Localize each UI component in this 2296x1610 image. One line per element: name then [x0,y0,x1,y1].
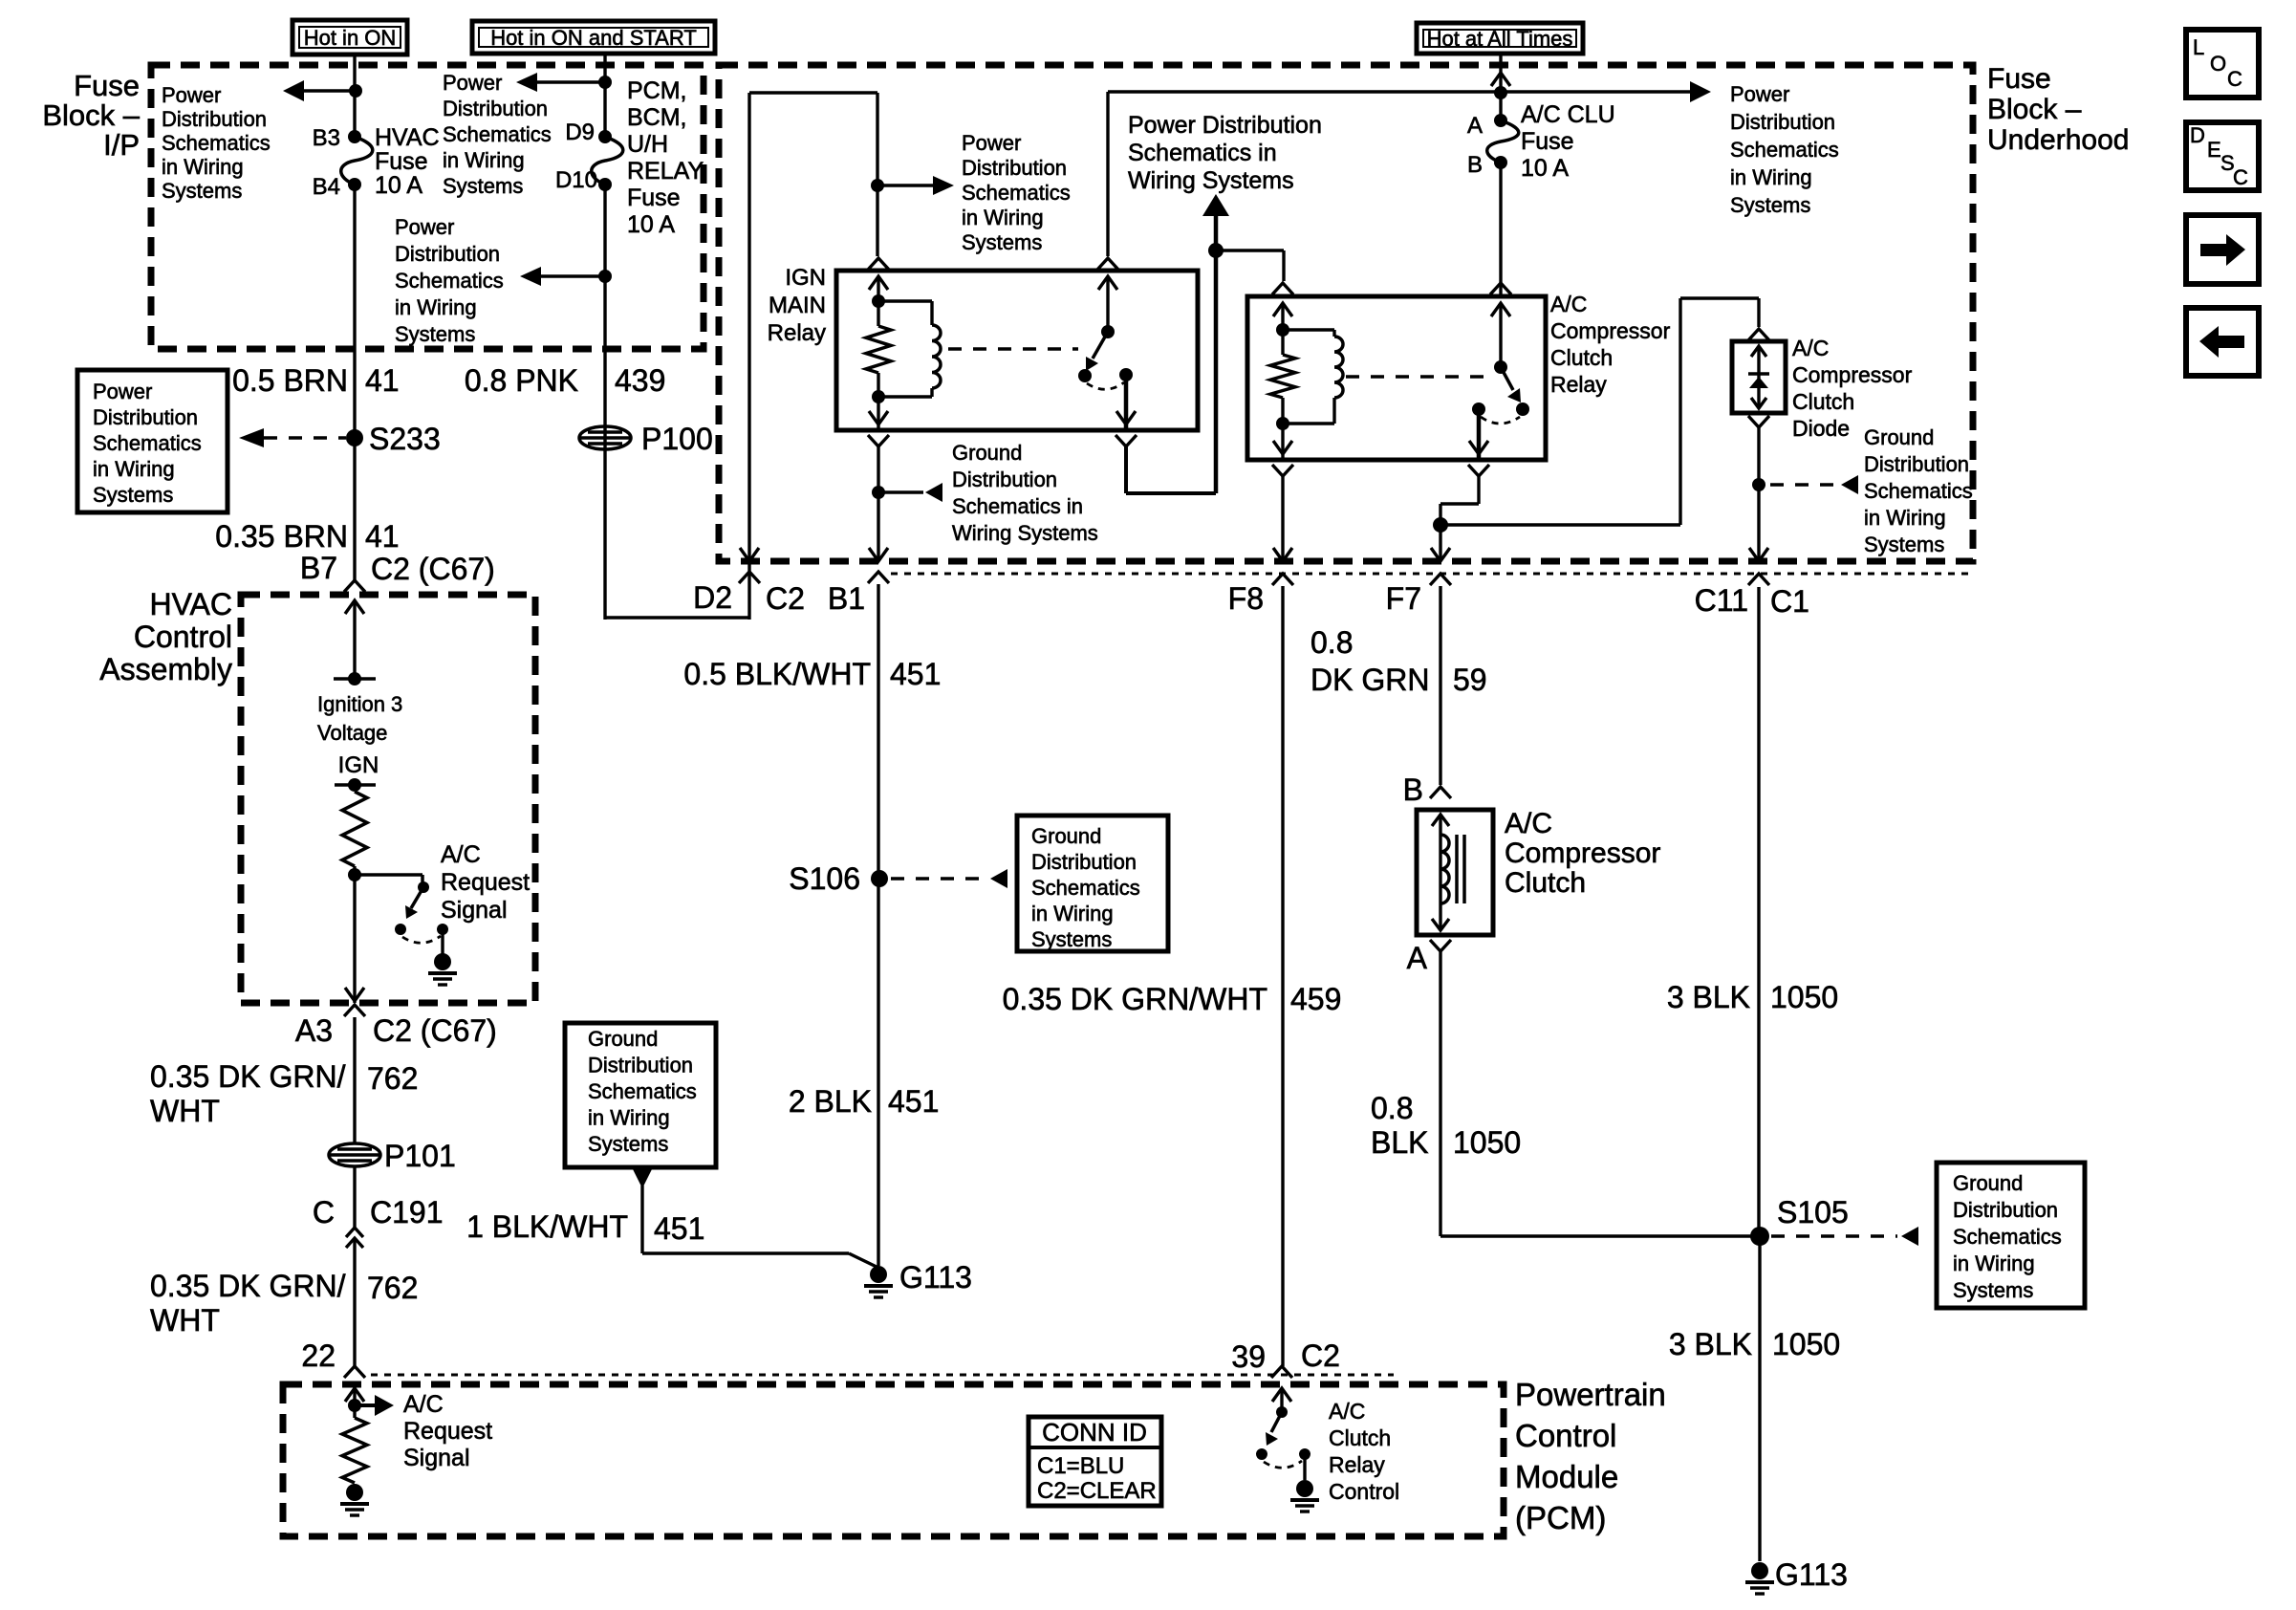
relay contact output arrow [1124,375,1129,430]
svg-text:A/C: A/C [1505,808,1552,839]
B1 wire from relay coil [877,446,879,561]
PCM switch arm [1271,1412,1282,1432]
F8 wire from A/C relay coil [1281,476,1284,561]
relay resistor [866,326,891,373]
ignition feed riser [1214,214,1219,493]
svg-text:Systems: Systems [162,179,242,203]
A/C relay contact output arrow [1477,409,1482,460]
wire 0.8 DK GRN 59 [1439,586,1441,785]
svg-text:Schematics in: Schematics in [1128,140,1277,166]
svg-text:451: 451 [888,1084,939,1119]
next arrow button [2186,215,2259,284]
connector F8 [1272,574,1293,585]
junction dot F7/diode [1433,517,1448,533]
wire fuse to A/C relay [1499,163,1502,294]
HVAC switch top contact dot [418,881,429,893]
PCM switch top dot [1276,1406,1288,1418]
connector C11 C1 [1748,574,1769,585]
svg-text:D: D [2190,123,2205,147]
svg-text:762: 762 [367,1061,418,1096]
svg-text:C2 (C67): C2 (C67) [371,552,495,586]
svg-text:O: O [2210,52,2226,76]
dashed reference arrow from S106 [891,877,986,881]
svg-text:MAIN: MAIN [769,293,826,318]
junction dot to reference 3 [598,270,612,283]
svg-text:451: 451 [654,1211,704,1246]
ignition 3 voltage terminal [334,677,376,681]
svg-text:Ground: Ground [588,1027,658,1051]
relay coil output chevron [868,435,889,446]
svg-text:in Wiring: in Wiring [962,206,1044,229]
HVAC switch left contact dot [395,924,406,935]
relay coil output arrow [877,397,879,430]
svg-text:Systems: Systems [395,322,475,346]
HVAC switch right contact dot [437,924,448,935]
A/C relay coil input arrow [1273,303,1292,316]
A/C relay coil input chevron [1272,283,1293,294]
svg-text:Powertrain: Powertrain [1515,1377,1666,1412]
CONN ID table box [1029,1417,1161,1506]
svg-text:Distribution: Distribution [1953,1198,2058,1222]
svg-text:Power Distribution: Power Distribution [1128,112,1322,139]
svg-text:459: 459 [1290,982,1341,1016]
svg-text:Relay: Relay [1550,372,1607,397]
svg-text:C: C [2227,67,2242,91]
fuse block I/P dashed outline [151,65,704,349]
svg-text:Control: Control [1329,1479,1399,1504]
wire Hot in ON and START to U/H relay fuse [603,54,606,137]
svg-text:Schematics: Schematics [962,181,1071,205]
svg-text:Control: Control [134,620,232,654]
svg-text:F8: F8 [1228,581,1264,616]
svg-text:0.5 BRN: 0.5 BRN [232,363,348,398]
exit arrow at F7 [1431,548,1450,561]
svg-text:Block –: Block – [1987,94,2082,125]
HVAC ignition 3 voltage input arrow [345,600,364,614]
diode internal arrow up [1751,346,1766,357]
A/C relay dashed actuation link [1346,375,1484,379]
svg-text:Hot in ON and START: Hot in ON and START [490,26,697,50]
A/C compressor clutch diode chevron top [1748,329,1769,340]
svg-text:Underhood: Underhood [1987,124,2129,156]
A/C relay coil top dot [1276,323,1289,337]
relay switch travel arc dashed [1087,382,1124,389]
relay switch pivot dot [1101,325,1115,338]
clutch coil arrow up [1432,815,1449,826]
PCM switch travel arc dashed [1264,1461,1302,1468]
svg-text:G113: G113 [1775,1557,1848,1592]
clutch coil arrow down [1432,919,1449,930]
junction dot at PCM feed [598,76,612,89]
connector A chevron clutch [1430,940,1451,951]
svg-text:Power: Power [962,131,1021,155]
connector 39 chevron [1271,1366,1292,1378]
ignition feed arrow up to reference [1202,194,1229,216]
relay switch arm [1093,332,1108,359]
svg-text:Schematics: Schematics [1953,1225,2062,1249]
svg-text:Schematics in: Schematics in [952,494,1083,518]
svg-text:1050: 1050 [1453,1125,1521,1160]
svg-text:F7: F7 [1386,581,1421,616]
svg-text:Distribution: Distribution [395,242,500,266]
arrow to power distribution reference 4 [877,184,944,187]
A/C relay switch travel arc dashed [1481,417,1520,424]
diode internal arrow down [1751,398,1766,408]
svg-text:Schematics: Schematics [162,131,271,155]
C191 connector chevrons [346,1228,363,1237]
svg-text:(PCM): (PCM) [1515,1500,1606,1535]
relay switch right contact dot [1119,368,1133,381]
svg-text:P100: P100 [641,422,713,456]
wire Hot at All Times down [1499,54,1502,120]
arrow to power distribution reference 3 [530,274,605,278]
svg-text:Systems: Systems [1953,1278,2033,1302]
svg-text:Distribution: Distribution [162,107,267,131]
A/C relay contact input arrow [1491,303,1510,316]
svg-text:WHT: WHT [150,1303,220,1338]
svg-text:A/C: A/C [403,1391,444,1418]
wire 3 BLK 1050 lower [1758,1236,1761,1561]
wire 0.35 DK GRN/WHT 762 lower [353,1238,356,1366]
coil bottom node dot [872,390,885,403]
svg-text:0.35 BRN: 0.35 BRN [215,519,348,554]
svg-text:L: L [2193,35,2204,59]
svg-text:Distribution: Distribution [1864,452,1969,476]
splice S233 [346,429,363,446]
PCM request ground [346,1484,363,1501]
wire to C191 [353,1166,356,1228]
svg-text:Request: Request [441,869,530,896]
arrow to ground distribution reference 1 [878,490,923,494]
svg-text:A: A [1467,113,1483,139]
DESC button [2186,122,2259,190]
A/C relay switch right contact dot [1516,402,1529,416]
arrow down from reference box [632,1167,653,1188]
svg-text:Compressor: Compressor [1505,838,1660,869]
A/C relay coil output chevron [1272,465,1293,476]
A/C relay switch pivot dot [1494,360,1507,374]
A/C compressor clutch diode box [1732,341,1786,413]
svg-text:Distribution: Distribution [1730,110,1835,134]
connector 22 chevron [344,1366,365,1378]
svg-text:0.8: 0.8 [1371,1091,1413,1125]
A/C CLU fuse A-B 10A [1494,114,1507,127]
svg-text:C2 (C67): C2 (C67) [373,1013,497,1048]
svg-text:Assembly: Assembly [99,652,232,686]
Hot in ON title box [292,20,407,54]
svg-text:A: A [1407,941,1428,975]
svg-text:Request: Request [403,1418,492,1445]
connector B7 C2(C67) [344,580,365,592]
svg-text:in Wiring: in Wiring [1730,165,1812,189]
svg-text:Hot at All Times: Hot at All Times [1427,27,1573,51]
A/C relay resistor [1270,355,1295,398]
svg-text:Distribution: Distribution [952,468,1057,491]
svg-text:1 BLK/WHT: 1 BLK/WHT [466,1209,628,1244]
svg-text:in Wiring: in Wiring [162,155,244,179]
svg-text:A/C: A/C [1792,336,1829,360]
svg-text:Fuse: Fuse [1987,63,2051,95]
svg-text:1050: 1050 [1772,1327,1840,1361]
junction dot coil feed reference [871,179,884,192]
svg-text:B7: B7 [300,551,337,585]
svg-text:Schematics: Schematics [588,1079,697,1103]
PCM dashed outline [283,1384,1504,1536]
exit arrow at B1 [869,548,888,561]
svg-text:Diode: Diode [1792,416,1850,441]
wire relay output jog to F7 [1477,476,1480,504]
svg-text:WHT: WHT [150,1094,220,1128]
svg-text:Schematics: Schematics [93,431,202,455]
svg-text:I/P: I/P [103,128,140,162]
wire 0.5 BRN 41 fuse to S233 [353,185,356,580]
svg-text:Signal: Signal [441,897,508,924]
svg-text:in Wiring: in Wiring [395,295,477,319]
HVAC fuse B3-B4 10A [348,130,361,143]
wire 0.35 DK GRN/WHT 459 [1281,586,1284,1366]
svg-text:B3: B3 [313,125,340,151]
svg-text:Distribution: Distribution [1031,850,1137,874]
svg-text:Power: Power [395,215,454,239]
svg-text:Schematics: Schematics [1031,876,1140,900]
svg-text:D9: D9 [565,120,595,145]
Hot at All Times title box [1417,23,1583,54]
LOC button [2186,30,2259,98]
PCM clutch relay control input arrow [1272,1388,1291,1402]
HVAC switch travel arc dashed [402,936,441,943]
wire 0.8 BLK 1050 [1439,951,1441,1236]
svg-text:Systems: Systems [1031,927,1112,951]
PCM request junction dot [348,1399,361,1412]
connector B chevron clutch [1430,787,1451,798]
svg-text:Power: Power [1730,82,1789,106]
svg-text:CONN ID: CONN ID [1042,1418,1147,1447]
svg-text:B: B [1403,772,1423,807]
HVAC switch ground [441,929,444,954]
svg-text:C: C [313,1195,335,1229]
svg-text:0.8 PNK: 0.8 PNK [465,363,578,398]
relay output jog to riser [1124,446,1128,493]
junction dot diode reference [1752,478,1765,491]
svg-text:B: B [1467,152,1483,178]
ground G113 bottom [1751,1562,1768,1579]
svg-text:HVAC: HVAC [375,124,440,151]
previous arrow button [2186,308,2259,376]
reference box ground distribution S105 [1937,1163,2085,1308]
junction dot hot at all times [1494,86,1507,99]
relay coil [878,299,932,302]
diode ground wire [1757,427,1760,561]
svg-text:Systems: Systems [1730,193,1810,217]
svg-text:S105: S105 [1777,1195,1849,1229]
svg-text:C2: C2 [1301,1338,1340,1373]
clutch coil [1440,835,1449,903]
wire 0.35 DK GRN/WHT 762 upper [353,1017,356,1143]
svg-text:439: 439 [615,363,665,398]
svg-text:Block –: Block – [42,98,140,132]
A/C relay contact output chevron [1468,465,1489,476]
wire 0.5 BLK/WHT 451 [877,584,879,1266]
IGN MAIN relay box [836,271,1198,430]
svg-text:S233: S233 [369,422,441,456]
dashed reference arrow from diode [1770,483,1837,487]
svg-text:1050: 1050 [1770,980,1838,1014]
fuse block Underhood dashed outline [719,65,1973,561]
relay contact feed riser [1106,92,1109,256]
dashed reference arrow from S233 [264,436,346,440]
svg-text:451: 451 [890,657,941,691]
HVAC switch arm [411,887,423,908]
svg-text:C1=BLU: C1=BLU [1037,1453,1124,1479]
svg-text:A/C CLU: A/C CLU [1521,101,1615,128]
reference box power distribution schematics [77,370,227,512]
svg-text:B1: B1 [828,581,865,616]
svg-text:10 A: 10 A [1521,155,1569,182]
wire D2 riser [747,93,750,620]
svg-text:Systems: Systems [962,230,1042,254]
svg-text:C1: C1 [1770,584,1809,619]
svg-text:Fuse: Fuse [627,185,681,211]
svg-text:BCM,: BCM, [627,104,687,131]
svg-text:3 BLK: 3 BLK [1667,980,1750,1014]
relay contact input arrow [1098,276,1117,290]
svg-text:Ground: Ground [1953,1171,2023,1195]
svg-text:Module: Module [1515,1459,1618,1494]
PCM switch right contact dot [1299,1448,1310,1460]
svg-text:Signal: Signal [403,1445,470,1471]
svg-text:Power: Power [443,71,502,95]
svg-text:C: C [2233,165,2248,189]
svg-text:P101: P101 [384,1139,456,1173]
svg-text:0.35 DK GRN/WHT: 0.35 DK GRN/WHT [1003,982,1267,1016]
A/C relay coil output arrow [1281,424,1284,460]
relay switch left contact dot [1078,369,1092,382]
svg-text:G113: G113 [899,1260,972,1295]
A/C compressor clutch box [1417,810,1493,935]
HVAC switch feed [355,873,422,877]
svg-text:in Wiring: in Wiring [443,148,525,172]
PCM A/C request input arrow [345,1388,364,1402]
wire 1 BLK/WHT 451 to G113 [640,1186,643,1253]
svg-text:A/C: A/C [1550,292,1587,316]
svg-text:Clutch: Clutch [1505,867,1586,899]
splice S106 [871,870,888,887]
svg-text:3 BLK: 3 BLK [1669,1327,1752,1361]
splice S105 [1750,1227,1769,1246]
svg-text:Clutch: Clutch [1329,1425,1391,1450]
svg-text:Systems: Systems [443,174,523,198]
svg-text:Systems: Systems [588,1132,668,1156]
HVAC resistor [342,792,367,866]
connector A3 C2(C67) [344,1005,365,1016]
svg-text:Relay: Relay [1329,1452,1385,1477]
junction dot ground distribution reference [872,486,885,499]
svg-text:Control: Control [1515,1418,1616,1453]
A/C relay switch left contact dot [1472,402,1485,416]
relay contact output chevron [1116,435,1137,446]
svg-text:C2=CLEAR: C2=CLEAR [1037,1478,1157,1504]
wire to A/C relay coil [1216,249,1284,251]
svg-text:Fuse: Fuse [1521,128,1574,155]
svg-text:U/H: U/H [627,131,668,158]
PCM request resistor [342,1418,367,1483]
svg-text:Clutch: Clutch [1792,389,1854,414]
svg-text:HVAC: HVAC [149,587,232,621]
svg-text:Schematics: Schematics [1730,138,1839,162]
grommet P101 [329,1143,380,1166]
svg-text:22: 22 [301,1338,336,1373]
connector F7 [1430,574,1451,585]
svg-text:in Wiring: in Wiring [1953,1251,2035,1275]
grommet P100 [579,426,631,449]
svg-text:41: 41 [365,363,400,398]
relay contact input chevron [1097,258,1118,270]
svg-text:10 A: 10 A [627,211,675,238]
reference box ground distribution middle [565,1023,716,1167]
svg-text:RELAY: RELAY [627,158,704,185]
svg-text:C2: C2 [766,581,805,616]
junction dot ignition feed [1208,243,1224,258]
svg-text:in Wiring: in Wiring [93,457,175,481]
svg-text:Relay: Relay [768,320,826,346]
svg-text:A/C: A/C [1329,1399,1365,1424]
svg-text:Ignition 3: Ignition 3 [317,692,402,716]
svg-text:C191: C191 [370,1195,444,1229]
ground G113 mid [870,1266,887,1283]
HVAC control assembly dashed outline [241,595,535,1003]
svg-text:Fuse: Fuse [74,69,140,102]
diode symbol [1748,372,1769,376]
connector D2 C2 [739,572,760,583]
relay dashed actuation link [948,347,1078,351]
arrow to power distribution reference 2 [526,80,605,84]
relay coil input arrow [869,276,888,290]
A/C relay coil bottom dot [1276,417,1289,430]
wire top feed to IGN MAIN relay coil [749,91,877,94]
svg-text:0.35 DK GRN/: 0.35 DK GRN/ [150,1059,346,1094]
feed line to relay contact and reference [1108,90,1501,93]
svg-text:Wiring Systems: Wiring Systems [952,521,1098,545]
HVAC output wire [353,875,356,1003]
wire 0.8 PNK 439 [603,185,606,620]
A/C relay coil [1283,328,1334,331]
svg-text:A/C: A/C [441,841,481,868]
svg-text:2 BLK: 2 BLK [789,1084,872,1119]
PCM switch left contact dot [1256,1448,1267,1460]
underhood connector face dashed line [891,573,1969,576]
svg-text:0.5 BLK/WHT: 0.5 BLK/WHT [683,657,871,691]
Hot in ON and START title box [472,21,715,54]
clutch plates [1455,835,1459,903]
svg-text:59: 59 [1453,663,1487,697]
svg-text:Hot in ON: Hot in ON [304,26,397,50]
svg-text:PCM,: PCM, [627,77,687,104]
svg-text:Distribution: Distribution [443,97,548,120]
svg-text:B4: B4 [313,174,340,200]
svg-text:Systems: Systems [1864,533,1944,556]
svg-text:Distribution: Distribution [962,156,1067,180]
svg-text:Ground: Ground [1031,824,1101,848]
svg-text:Compressor: Compressor [1792,362,1913,387]
svg-text:Voltage: Voltage [317,721,387,745]
wire Hot in ON to HVAC fuse [353,54,356,137]
wire to diode riser [1440,523,1680,526]
wire 3 BLK 1050 upper [1757,587,1760,1236]
svg-text:E: E [2207,138,2221,162]
svg-text:BLK: BLK [1371,1125,1428,1160]
svg-text:IGN: IGN [338,752,379,778]
svg-text:Fuse: Fuse [375,148,428,175]
